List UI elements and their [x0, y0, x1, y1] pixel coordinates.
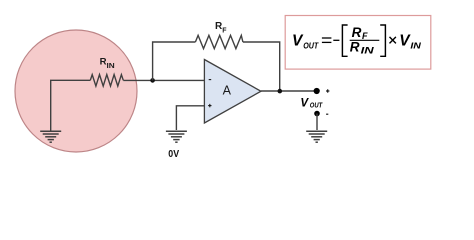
svg-text:0V: 0V [168, 148, 179, 160]
svg-text:V: V [300, 96, 309, 109]
svg-text:IN: IN [107, 63, 115, 70]
wire (output ground stem) [316, 114, 318, 131]
ground (input source) [40, 131, 61, 142]
wire (non-inverting input) [176, 106, 204, 130]
svg-text:F: F [222, 27, 227, 34]
formula V_OUT = -[R_F/R_IN] x V_IN [292, 25, 422, 55]
node (inverting input junction) [150, 78, 155, 83]
svg-text:OUT: OUT [303, 40, 319, 50]
fraction bar [350, 39, 380, 41]
svg-text:R: R [352, 25, 362, 40]
svg-text:A: A [223, 84, 232, 98]
ground 0V [166, 131, 187, 142]
op-amp A [204, 60, 261, 124]
wire (feedback right branch) [243, 42, 280, 91]
minus sign [333, 39, 339, 41]
op-amp plus pin mark [208, 104, 211, 107]
ground (output) [306, 131, 327, 142]
times sign [390, 37, 396, 44]
terminal + (output) [314, 88, 320, 94]
wire (R_IN to op-amp inverting input) [123, 79, 204, 81]
svg-text:OUT: OUT [310, 102, 323, 109]
label + [326, 89, 329, 92]
input source region highlight (pink circle) [15, 30, 137, 152]
wire (output) [261, 90, 314, 92]
resistor R_IN [90, 75, 123, 87]
formula box [285, 16, 431, 70]
left bracket [342, 25, 347, 56]
resistor R_F [195, 35, 243, 48]
terminal - (output) [314, 111, 320, 117]
label - [326, 113, 328, 115]
wire (feedback left branch) [153, 42, 196, 80]
wire (source ground stem + input lead) [51, 80, 91, 130]
svg-text:R: R [350, 39, 360, 54]
equals sign [322, 38, 332, 42]
right bracket [380, 25, 385, 56]
node (output junction) [278, 89, 283, 94]
svg-text:IN: IN [361, 45, 375, 55]
svg-text:F: F [362, 31, 368, 41]
svg-text:IN: IN [410, 40, 422, 50]
op-amp minus pin mark [209, 79, 212, 81]
svg-text:V: V [292, 32, 304, 49]
